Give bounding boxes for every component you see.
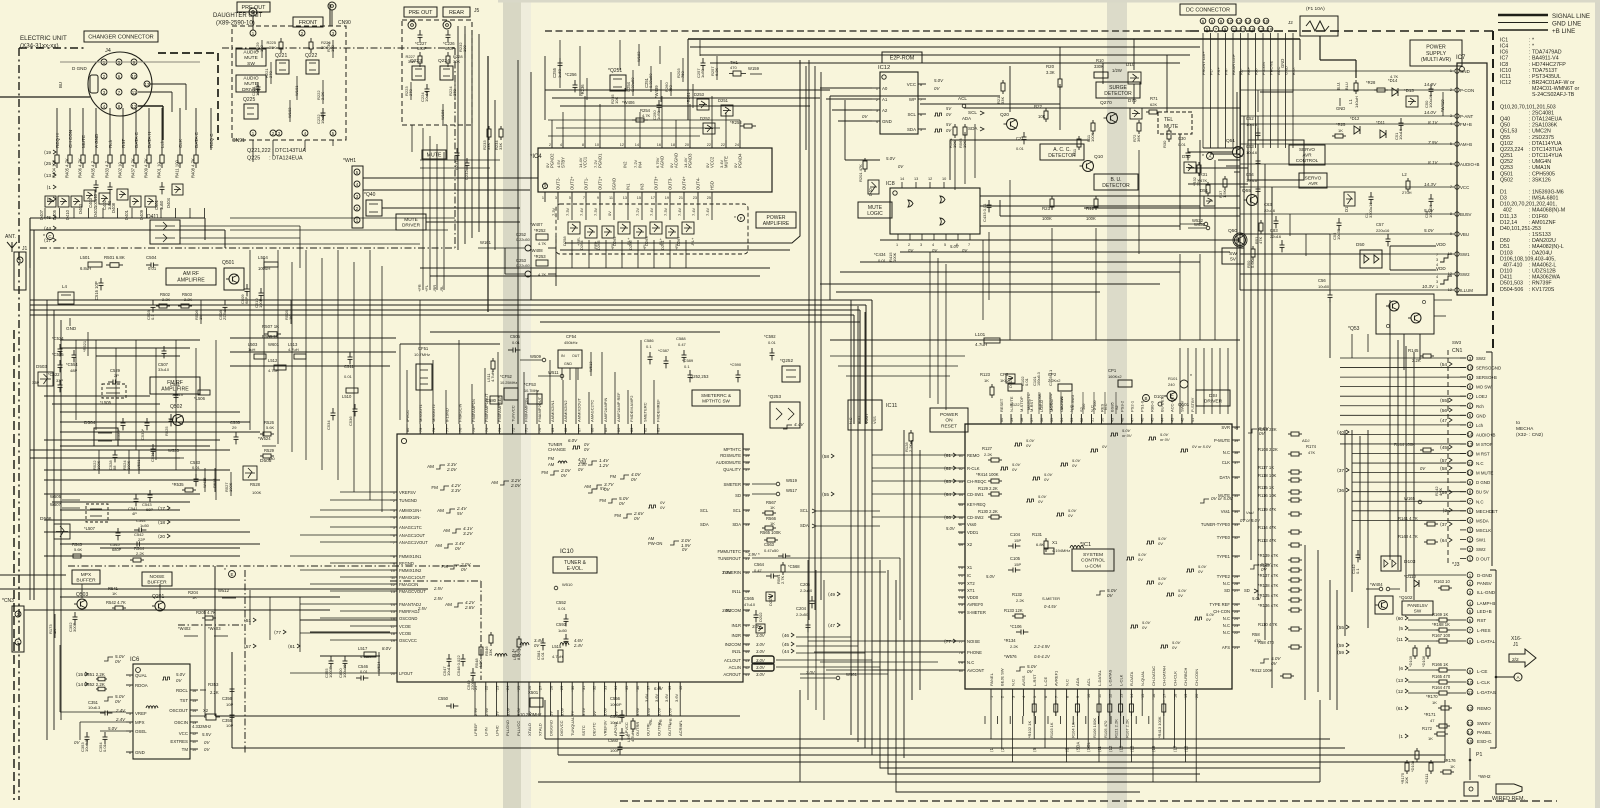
svg-text:1000P: 1000P <box>328 666 333 678</box>
svg-text:2.2K: 2.2K <box>984 452 993 457</box>
svg-text:or 0V: or 0V <box>1160 437 1170 442</box>
wire IC1 fanout <box>1135 716 1137 724</box>
resistor R529 330 <box>260 448 275 461</box>
wire CN1 stub <box>1460 491 1466 493</box>
svg-text:3: 3 <box>1011 696 1015 698</box>
svg-text:10: 10 <box>192 748 196 752</box>
svg-text:0V: 0V <box>545 163 550 168</box>
svg-text:4.7uH: 4.7uH <box>360 654 371 659</box>
svg-text:10: 10 <box>1468 680 1473 685</box>
voltage below IC10 <box>667 707 672 716</box>
label box ACC DETECTOR <box>1040 144 1084 160</box>
svg-text:R122: R122 <box>1010 402 1020 407</box>
label GND BLU <box>1280 59 1349 90</box>
wire IC4 bottom stub <box>571 202 573 220</box>
wire trunk v2 <box>814 66 816 610</box>
IC4 box <box>530 148 772 192</box>
svg-text:39: 39 <box>668 686 672 690</box>
svg-text:GND: GND <box>1336 106 1345 111</box>
label box POWER ON RESET <box>930 408 968 432</box>
IC1 pin N.C <box>958 660 974 665</box>
svg-text:270: 270 <box>452 89 457 96</box>
label box PANEL5V SW <box>1402 601 1433 615</box>
svg-text:MIXOUT2: MIXOUT2 <box>431 403 436 422</box>
connector J4 pin 9 <box>131 59 137 65</box>
svg-text:0V: 0V <box>1158 541 1163 546</box>
resistor R20 3.3K <box>1046 64 1062 90</box>
resistor R130 2.2K <box>944 509 1002 521</box>
J3 pin LED+B <box>1467 608 1492 614</box>
wire rail drop <box>1305 234 1307 256</box>
svg-text:L4: L4 <box>62 284 67 289</box>
wire REQ H from J4 <box>55 108 60 150</box>
svg-text:160Kx2: 160Kx2 <box>1108 374 1122 379</box>
wire phone noise rows <box>808 641 958 670</box>
wire IC1 bottom drop <box>1195 716 1197 782</box>
svg-text:79: 79 <box>419 428 423 432</box>
svg-text:3.6V: 3.6V <box>635 707 640 716</box>
svg-text:12: 12 <box>1237 19 1242 24</box>
wire mid bus2 <box>30 305 866 424</box>
IC10 pin IN2COM <box>725 642 750 647</box>
svg-text:0V: 0V <box>898 164 904 169</box>
svg-text:FM: FM <box>541 470 548 475</box>
svg-text:SW2: SW2 <box>1476 547 1486 552</box>
IC12 pin SCL <box>907 112 926 117</box>
svg-text:11: 11 <box>1468 690 1473 695</box>
capacitor C541 4P <box>128 494 139 516</box>
svg-text:1.2V: 1.2V <box>599 463 609 468</box>
legend gnd line <box>1498 21 1581 28</box>
wire top center v <box>560 40 700 96</box>
svg-text:AM: AM <box>427 464 434 469</box>
wire IC10 riser <box>575 368 577 424</box>
svg-text:0V: 0V <box>534 643 540 648</box>
resistor R508 1K <box>262 334 279 339</box>
wire IC10 bottom drop <box>506 692 508 716</box>
resistor R405 <box>65 150 73 178</box>
svg-text:PGND1: PGND1 <box>598 153 603 168</box>
wire IC4 bottom stub <box>683 202 685 220</box>
CN1 pin SW2 <box>1467 546 1486 552</box>
svg-text:OUT: OUT <box>572 354 580 358</box>
svg-text:3.0V: 3.0V <box>722 570 732 575</box>
label SD out <box>1244 588 1258 593</box>
svg-text:DC CONNECTOR: DC CONNECTOR <box>1186 7 1230 13</box>
svg-text:+FR: +FR <box>668 718 673 726</box>
svg-text:CN90: CN90 <box>338 20 351 26</box>
wire W159 <box>748 66 762 74</box>
svg-text:AMMIX2OUT: AMMIX2OUT <box>576 398 581 422</box>
capacitor C531 33u10 <box>170 382 184 402</box>
capacitor C101 100u6.3 <box>1032 372 1041 386</box>
svg-text:W101: W101 <box>294 85 299 96</box>
svg-text:19: 19 <box>1184 694 1188 698</box>
IC10 pin ACLIN <box>729 665 750 670</box>
label box AUDIO MUTE SW <box>236 49 266 67</box>
svg-text:SMETER: SMETER <box>724 482 741 487</box>
svg-text:R110 4.7K: R110 4.7K <box>1258 622 1278 627</box>
IC1 pin TYPE REF <box>1210 602 1240 607</box>
capacitor C51 <box>1394 118 1404 140</box>
svg-text:D50: D50 <box>1356 242 1365 247</box>
IC1 pin LOEJ2 <box>1039 399 1044 424</box>
wire det h1 <box>830 96 1000 300</box>
svg-text:TUNGND: TUNGND <box>399 498 417 503</box>
svg-text:65: 65 <box>604 428 608 432</box>
svg-text:VDD0: VDD0 <box>967 595 979 600</box>
svg-text:0.01: 0.01 <box>512 340 521 345</box>
svg-text:14: 14 <box>391 603 395 607</box>
svg-text:RFGND: RFGND <box>399 561 414 566</box>
IC10 sine bottom2 <box>520 638 544 648</box>
svg-text:4.7K: 4.7K <box>642 113 651 118</box>
DC connector pin 9b <box>1222 26 1228 32</box>
wire CN1 stub <box>1460 529 1466 531</box>
CN1 pin D OUT <box>1467 556 1490 562</box>
label 0V row ic8 <box>908 244 968 253</box>
CN1 arrow ref <box>1440 398 1452 404</box>
svg-text:8: 8 <box>393 555 395 559</box>
svg-text:IN3: IN3 <box>640 183 645 190</box>
IC1 pin VDD0 <box>958 595 979 600</box>
svg-text:Q252,253: Q252,253 <box>690 374 709 379</box>
capacitor C563 0.47u50 <box>764 542 790 559</box>
resistor R138 <box>1258 583 1302 592</box>
capacitor C103 0.1 <box>1048 369 1053 386</box>
label 3.0V row <box>756 649 794 655</box>
DC connector pin 5b <box>1204 26 1210 32</box>
label J5 <box>474 8 480 14</box>
svg-text:R507 1K: R507 1K <box>262 324 279 329</box>
label ELECTRIC UNIT <box>20 35 67 50</box>
crystal X1 <box>1044 540 1070 554</box>
svg-text:W156: W156 <box>440 109 445 120</box>
wire DC bus <box>1203 40 1293 172</box>
svg-text:0V: 0V <box>1261 567 1268 572</box>
svg-text:VCC: VCC <box>1460 185 1469 190</box>
svg-text:57: 57 <box>1030 418 1034 422</box>
IC4 pin STBY <box>556 140 566 168</box>
svg-text:D253: D253 <box>694 92 705 97</box>
svg-text:1u50: 1u50 <box>159 200 164 210</box>
capacitor C548 0.022 <box>456 654 466 676</box>
IC10 pin RFGND <box>390 561 414 566</box>
svg-text:4.4V: 4.4V <box>794 422 804 427</box>
svg-text:N.C: N.C <box>1223 623 1230 628</box>
svg-text:L101: L101 <box>975 332 986 337</box>
svg-text:0V: 0V <box>561 473 568 478</box>
svg-text:13: 13 <box>391 590 395 594</box>
svg-text:C588: C588 <box>676 336 686 341</box>
svg-text:Q51: Q51 <box>1226 138 1235 144</box>
IC10 pin PLLGND <box>505 682 510 736</box>
svg-text:(X32- : CN2): (X32- : CN2) <box>1516 432 1543 438</box>
wire power amp loop <box>560 60 806 250</box>
svg-text:0V: 0V <box>204 740 210 745</box>
wire j3 feeds <box>1408 574 1466 576</box>
resistor R110 <box>1258 622 1349 631</box>
svg-text:R10: R10 <box>1096 58 1104 63</box>
resistor R139 <box>1258 553 1302 562</box>
svg-text:VCC: VCC <box>907 82 916 87</box>
capacitor C204 2.2u50 <box>796 606 811 632</box>
svg-text:R353: R353 <box>208 682 219 687</box>
capacitor C251 0.22u50 <box>644 66 653 92</box>
svg-text:SVR: SVR <box>1221 425 1230 430</box>
IC1 pin P-MUTE <box>1214 438 1240 443</box>
diode D407 <box>39 196 56 220</box>
wire IC10 left feed <box>330 590 390 592</box>
svg-text:TAB: TAB <box>543 182 548 190</box>
IC10 pin FMMIX1IN2 <box>390 568 422 573</box>
resistor R167 <box>1396 633 1466 643</box>
IC10 pin AMMIX1IN+ <box>390 508 422 513</box>
svg-text:: KV1720S: : KV1720S <box>1529 287 1555 293</box>
IC6 box <box>130 657 190 759</box>
svg-text:VCC1: VCC1 <box>583 156 588 168</box>
svg-text:9: 9 <box>393 562 395 566</box>
diode D1 <box>1344 192 1355 212</box>
resistor R541 1K <box>108 586 119 596</box>
svg-text:VOUT: VOUT <box>865 413 869 424</box>
IC10 pin DEVTC <box>592 682 597 736</box>
svg-text:⟨18: ⟨18 <box>158 520 166 526</box>
capacitor C402 1u50 <box>102 182 113 210</box>
svg-text:R129 2.2K: R129 2.2K <box>978 486 998 491</box>
svg-text:A: A <box>1516 675 1520 680</box>
wire Lch from J4 <box>160 108 165 150</box>
connector J4 pin 5 <box>116 59 122 65</box>
svg-text:Lch: Lch <box>160 140 165 148</box>
IC4 pin HSD <box>705 181 715 216</box>
svg-text:470: 470 <box>1254 638 1261 643</box>
resistor R521 <box>82 332 88 356</box>
svg-text:13: 13 <box>1468 442 1473 447</box>
svg-text:SW: SW <box>1414 608 1422 613</box>
label box NOISE BUFFER <box>142 572 172 586</box>
wire IC1 bottom drop <box>1087 716 1089 748</box>
IC1 pin CH-REQC <box>958 479 987 484</box>
svg-text:73: 73 <box>959 589 963 593</box>
filter CF52 10.25MHz <box>500 374 518 400</box>
wire IC1 bottom stub <box>1152 700 1154 716</box>
svg-text:57: 57 <box>745 468 749 472</box>
svg-text:63: 63 <box>630 428 634 432</box>
arrow 55 <box>822 492 834 498</box>
capacitor C54 10u16 <box>1246 172 1261 196</box>
svg-text:*R137 47K: *R137 47K <box>1258 573 1278 578</box>
svg-text:R130 2.2K: R130 2.2K <box>978 509 998 514</box>
wire IC4 riser <box>639 112 641 140</box>
node F circle <box>734 215 745 223</box>
svg-text:⟨20: ⟨20 <box>158 534 166 540</box>
IC10 pin TUNQUALITY <box>570 682 575 736</box>
resistor R548 4.3K <box>474 644 483 668</box>
resistor R221 270 <box>264 62 273 84</box>
svg-text:FM: FM <box>548 456 555 461</box>
CN1 arrow ref <box>1440 445 1452 451</box>
wire IC10 left feed <box>330 499 390 501</box>
wire IC10 riser <box>588 392 590 424</box>
wire scl sda ext <box>816 511 880 526</box>
IC10 pin AMIF2AMP REF <box>616 392 621 434</box>
svg-text:5.6K: 5.6K <box>74 547 83 552</box>
label J4 <box>105 48 111 54</box>
svg-text:N.C: N.C <box>967 660 974 665</box>
svg-text:7: 7 <box>1469 628 1472 633</box>
svg-text:0.01: 0.01 <box>558 606 567 611</box>
CN1 pin AUDIO+B <box>1467 432 1495 438</box>
svg-text:CLK: CLK <box>178 138 183 148</box>
svg-text:ON: ON <box>945 418 953 424</box>
svg-text:4.3K: 4.3K <box>478 659 483 668</box>
IC1 bottom arrow <box>1129 745 1134 752</box>
svg-text:0V: 0V <box>1026 443 1031 448</box>
connector J4 pin 11 <box>131 89 137 95</box>
svg-text:⟨61: ⟨61 <box>288 644 296 650</box>
svg-text:L-DATAL: L-DATAL <box>1477 639 1496 644</box>
IC10 pin MIXOUT1 <box>418 403 423 434</box>
resistor R72 36K <box>1132 120 1141 142</box>
IC10 pin FMAGCIN <box>390 582 418 587</box>
wire IC1 fanout <box>984 716 986 724</box>
IC1 pin Vss0 <box>958 522 977 527</box>
svg-text:1u50: 1u50 <box>140 523 150 528</box>
resistor R10 330K 1/2W <box>1094 58 1122 78</box>
resistor R58b 470 <box>1252 632 1261 643</box>
svg-text:11: 11 <box>609 196 613 200</box>
IC4 pin IN2 <box>620 140 628 168</box>
svg-text:R20: R20 <box>1046 64 1055 69</box>
IC10 pin TUNGND <box>390 498 417 503</box>
IC1 pin IC <box>958 573 971 578</box>
wire bottom bus5 <box>568 700 1445 762</box>
wire fuse down <box>1320 36 1356 78</box>
svg-text:49: 49 <box>1110 418 1114 422</box>
svg-text:⟨15: ⟨15 <box>76 672 84 678</box>
svg-text:0V: 0V <box>705 163 710 168</box>
resistor R413 <box>1157 700 1166 738</box>
inductor L506 <box>194 390 210 401</box>
svg-text:C57: C57 <box>1376 222 1384 227</box>
wire bplus h1 <box>690 46 1200 48</box>
wire IC10 bottom drop <box>668 692 670 716</box>
svg-text:2.8V: 2.8V <box>464 605 475 610</box>
IC10 right annot FM AM <box>548 456 588 472</box>
svg-text:J2: J2 <box>1288 20 1293 25</box>
svg-text:⟨58: ⟨58 <box>1440 466 1448 472</box>
svg-text:*D108: *D108 <box>1410 760 1415 772</box>
svg-text:53: 53 <box>745 523 749 527</box>
CN1 arrow ref <box>1440 362 1452 368</box>
svg-text:D30: D30 <box>1182 154 1191 159</box>
capacitor C528 68 <box>108 450 118 470</box>
wire IC1 left feed <box>872 480 958 482</box>
svg-text:44: 44 <box>745 650 749 654</box>
IC10 pin AMMIX2OUT <box>576 398 581 434</box>
IC1 bottom arrow <box>1108 745 1113 752</box>
wire IC4 bottom stub <box>697 202 699 220</box>
diode D103 <box>1381 556 1416 571</box>
svg-text:17: 17 <box>651 196 655 200</box>
svg-text:C586: C586 <box>644 338 654 343</box>
diode D12 <box>1350 116 1360 134</box>
resistor R142 4.7K <box>1434 486 1443 496</box>
svg-text:P1: P1 <box>1476 752 1482 758</box>
wire CN1 stub <box>1460 405 1466 407</box>
svg-text:29: 29 <box>560 686 564 690</box>
resistor R227 30K <box>405 52 422 67</box>
wire IC10 left feed <box>300 569 390 571</box>
svg-text:36K: 36K <box>1136 135 1141 142</box>
svg-text:ACL: ACL <box>958 96 967 101</box>
svg-text:1K: 1K <box>112 591 117 596</box>
IC1 pin N.C <box>1010 679 1015 700</box>
transistor Q53 pack <box>1348 294 1434 334</box>
svg-text:RST: RST <box>121 139 126 148</box>
resistor R535 <box>172 482 196 492</box>
svg-text:GND: GND <box>135 750 145 755</box>
svg-text:CH CON: CH CON <box>68 130 73 148</box>
svg-text:PW-ON: PW-ON <box>648 541 662 546</box>
svg-text:0V: 0V <box>660 505 665 510</box>
IC7 box <box>1456 55 1487 295</box>
svg-text:IN1: IN1 <box>626 183 631 190</box>
capacitor C257 1u50 <box>696 58 706 78</box>
IC1 pin R-DATA <box>1129 671 1134 700</box>
capacitor C507 33u10 <box>158 346 170 372</box>
svg-text:C534: C534 <box>326 420 331 430</box>
label J2 <box>1288 20 1293 25</box>
svg-text:AMPLIFIRE: AMPLIFIRE <box>763 221 790 227</box>
wire IC10 bottom drop <box>658 692 660 716</box>
wire left-mid v3 <box>370 250 382 512</box>
wire IC10 left feed <box>320 541 390 543</box>
J3 pin L-DATAS <box>1467 689 1496 695</box>
wire DC drop <box>1255 80 1257 148</box>
svg-text:8.0V: 8.0V <box>516 651 521 660</box>
svg-text:R565 100K: R565 100K <box>760 530 781 535</box>
resistor R114 <box>1258 525 1302 534</box>
capacitor C588 0.47 <box>676 336 687 362</box>
IC1 pin RESET <box>999 398 1004 424</box>
svg-text:TYPE2: TYPE2 <box>1217 574 1231 579</box>
wire W533 <box>168 448 184 458</box>
label 2.4V b <box>115 717 126 722</box>
connector J4 pin 13 <box>144 81 150 87</box>
DC connector pin 13b <box>1240 26 1246 32</box>
label 5.0V bu5v <box>1424 208 1434 213</box>
IC1 pin PS3-2 <box>1119 400 1124 424</box>
svg-text:58: 58 <box>745 461 749 465</box>
svg-text:74: 74 <box>485 428 489 432</box>
svg-text:OUT1-: OUT1- <box>584 177 589 190</box>
diode D30 <box>1182 154 1196 173</box>
svg-text:2.0V: 2.0V <box>446 467 457 472</box>
J3 pin L-CLK <box>1467 679 1491 685</box>
DC signal FRONT Lch+ <box>1201 33 1206 80</box>
svg-text:0.01: 0.01 <box>102 743 107 752</box>
svg-text:S2: S2 <box>1115 405 1119 410</box>
label SDA arrow <box>968 126 984 131</box>
svg-text:AM: AM <box>548 462 555 467</box>
wire DC drop <box>1240 80 1242 148</box>
wire servo h <box>1188 152 1248 240</box>
diode D405 <box>52 196 69 220</box>
scan band right edge <box>1595 0 1600 808</box>
IC10 pin VCOB <box>390 631 411 636</box>
